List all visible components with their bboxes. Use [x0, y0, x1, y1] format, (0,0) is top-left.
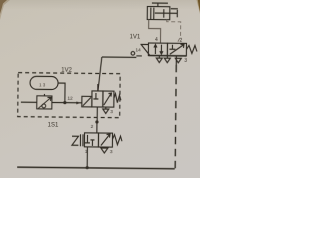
timer valve blocked port	[93, 93, 98, 99]
valve 1S1 return spring	[112, 135, 122, 145]
photo corner top-right	[198, 0, 200, 12]
svg-text:1V1: 1V1	[130, 34, 141, 40]
pilot line arrowhead	[76, 102, 80, 105]
cylinder piston rod	[155, 9, 178, 18]
svg-text:3: 3	[110, 149, 113, 155]
svg-text:1 3: 1 3	[39, 82, 46, 87]
air reservoir capsule	[30, 76, 58, 89]
wire pilot line from timer to valve 1V1 pilot	[98, 57, 136, 91]
valve 1V1 right box flow arrow	[169, 44, 184, 54]
valve 1V1 exhaust triangle 1	[164, 56, 170, 63]
svg-text:2: 2	[91, 124, 94, 130]
svg-text:3: 3	[184, 58, 187, 64]
svg-text:12: 12	[67, 96, 73, 102]
valve 1V1 exhaust triangle 5	[156, 56, 162, 63]
wire valve 1V1 port 1 down to supply line	[175, 56, 177, 65]
valve 1S1 exhaust triangle	[101, 147, 108, 153]
node pilot junction	[63, 101, 66, 104]
wire supply line	[17, 167, 174, 169]
timer valve flow arrow	[104, 93, 112, 105]
wire timer valve port 2 up	[97, 84, 99, 91]
svg-text:1S1: 1S1	[48, 122, 59, 128]
wire pilot line 12	[21, 101, 82, 104]
wire timer valve port 1 down to node	[96, 107, 98, 122]
valve 1V1 body bottom edge	[148, 55, 186, 57]
valve 1V1 right position box	[167, 43, 186, 56]
timer 3/2 valve right box	[103, 91, 114, 107]
timer valve spring	[114, 94, 121, 103]
wire reservoir to pilot node	[58, 83, 65, 103]
timer pilot square	[82, 96, 92, 107]
timer 1V2 dashed enclosure	[18, 73, 120, 118]
cylinder 1A1 body	[147, 3, 170, 20]
valve 1V1 left box flow arrows	[154, 45, 163, 55]
svg-text:14: 14	[135, 47, 141, 53]
wire cylinder left port to valve 1V1 port 4	[148, 20, 160, 44]
valve 1S1 roller actuator	[72, 134, 83, 146]
wire 1S1 port 1 down to supply line	[86, 147, 88, 168]
wire cylinder right port to valve 1V1 port 2	[166, 20, 180, 44]
wire 1S1 port 2 up	[96, 122, 98, 133]
valve 1V1 left position box	[148, 43, 167, 56]
timer 3/2 valve left box	[92, 91, 103, 107]
valve 1V1 exhaust triangle 3	[175, 58, 181, 63]
photo corner shadow top-left	[0, 0, 7, 14]
node supply junction	[86, 166, 89, 169]
valve 1V1 return spring	[186, 45, 197, 53]
svg-text:3: 3	[110, 109, 113, 115]
valve 1S1 left box blocked ports	[85, 135, 95, 146]
valve 1V1 pilot 14	[131, 44, 150, 56]
valve 1S1 right position box	[98, 133, 112, 147]
svg-text:4: 4	[155, 37, 158, 43]
node valve 1S1 output junction	[95, 120, 98, 123]
one-way flow control valve	[37, 94, 52, 109]
valve 1S1 right box flow arrow	[101, 134, 110, 146]
valve 1S1 left position box	[84, 133, 98, 147]
cylinder piston	[151, 8, 164, 20]
timer valve exhaust triangle	[103, 107, 109, 114]
